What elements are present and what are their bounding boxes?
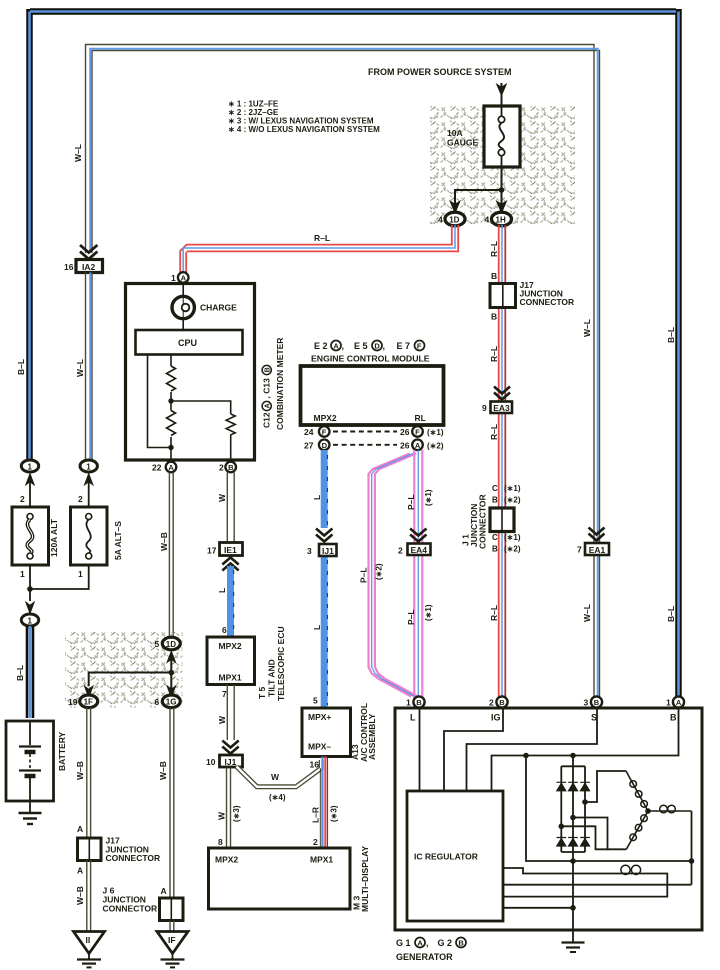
wire J6 to ground IF (170, 921, 174, 932)
svg-text:B: B (458, 939, 464, 948)
generator box (395, 708, 702, 930)
svg-text:CPU: CPU (178, 338, 197, 348)
label E2 A E5 D E7 F (314, 341, 425, 352)
fuse 10A GAUGE (447, 106, 520, 167)
generator junction dots (523, 753, 694, 911)
generator internal wires (420, 708, 692, 930)
svg-text:∗ 4 : W/O LEXUS NAVIGATION SYS: ∗ 4 : W/O LEXUS NAVIGATION SYSTEM (228, 125, 380, 134)
wire meter pin to charge lamp (182, 283, 184, 296)
label C12 A C13 B COMBINATION METER (262, 338, 286, 430)
connector oval 1 (W-L) (80, 460, 97, 472)
svg-text:TELESCOPIC ECU: TELESCOPIC ECU (276, 626, 286, 701)
connector IJ1 (pin 3) (319, 544, 337, 556)
svg-text:B: B (492, 545, 498, 554)
wire B-L oval to battery (27, 626, 33, 718)
svg-text:24: 24 (304, 427, 314, 437)
svg-text:W: W (217, 715, 227, 724)
svg-text:26: 26 (400, 427, 410, 437)
rectifier diodes (557, 782, 590, 846)
svg-text:A: A (417, 939, 423, 948)
svg-text:A: A (333, 342, 339, 351)
wire into 5A ALT-S (88, 482, 90, 507)
wire fuse feed (501, 83, 503, 106)
wire L-R (*3) A/C pin16 to multi-display MPX1 (320, 757, 327, 849)
svg-text:E 5: E 5 (354, 341, 368, 351)
rectifier rails (561, 756, 585, 930)
svg-text:(∗4): (∗4) (269, 793, 286, 802)
svg-text:IJ1: IJ1 (225, 757, 237, 767)
svg-text:W–B: W–B (159, 532, 169, 551)
connector IE1 (pin 17) (220, 543, 243, 556)
arrow chevron into EA1 (589, 528, 605, 541)
svg-text:10A: 10A (447, 128, 463, 138)
stator phase 2 (center) (573, 818, 626, 850)
resistor R1 meter (167, 366, 176, 391)
wire L (blue) ECM pin27 to IJ1 to A/C assembly MPX+ (321, 450, 328, 528)
svg-text:16: 16 (310, 760, 320, 770)
svg-text:IF: IF (168, 935, 176, 945)
stator phase 3 (bottom) (561, 826, 607, 849)
svg-text:R–L: R–L (489, 241, 499, 257)
svg-text:27: 27 (304, 440, 314, 450)
svg-text:(∗2): (∗2) (427, 441, 444, 450)
pin 3 B (S) (591, 696, 602, 707)
svg-text:MPX1: MPX1 (310, 855, 333, 865)
connector EA4 (408, 544, 431, 556)
resistor R2 meter (167, 411, 176, 436)
ground below battery (19, 801, 42, 824)
dashed link pin24 to pin26 (333, 431, 397, 433)
svg-text:(∗2): (∗2) (504, 496, 521, 505)
CPU box (136, 330, 243, 355)
svg-text:2: 2 (78, 494, 83, 504)
connector 1H (492, 212, 512, 226)
svg-text:B: B (499, 698, 505, 707)
svg-text:IG: IG (491, 713, 501, 723)
svg-text:II: II (86, 935, 91, 945)
svg-text:5: 5 (155, 639, 160, 649)
svg-text:R–L: R–L (489, 346, 499, 362)
svg-text:E 2: E 2 (314, 341, 328, 351)
svg-text:CONNECTOR: CONNECTOR (103, 904, 158, 914)
svg-text:, C13: , C13 (262, 378, 272, 399)
svg-text:MPX+: MPX+ (308, 712, 331, 722)
svg-text:B: B (416, 698, 422, 707)
svg-text:R–L: R–L (489, 605, 499, 621)
arrow chevron into EA3 (494, 387, 510, 400)
wire L pin to IC regulator (419, 708, 421, 792)
arrow below 1D (167, 651, 176, 663)
svg-text:C12: C12 (262, 412, 272, 428)
wire L (blue) IE1 to tilt ECU MPX2 (227, 566, 234, 637)
wire B-L outer loop (battery feed to generator B) (30, 9, 679, 700)
svg-text:FROM POWER SOURCE SYSTEM: FROM POWER SOURCE SYSTEM (368, 67, 512, 77)
note *1 *2 *3 *4 (228, 100, 380, 135)
svg-text:22: 22 (152, 463, 162, 473)
engine control module box (301, 366, 444, 425)
svg-text:1F: 1F (84, 698, 93, 707)
A/C control assembly box A13 (302, 708, 351, 757)
wire into 120A ALT (29, 482, 31, 507)
svg-text:1: 1 (666, 698, 671, 708)
pin 1 A (B) (673, 696, 684, 707)
svg-text:B: B (264, 367, 271, 372)
svg-text:W–L: W–L (75, 359, 85, 377)
connector oval 1 (to battery) (21, 614, 38, 626)
svg-text:TILT AND: TILT AND (267, 659, 277, 697)
svg-text:(∗3): (∗3) (232, 805, 241, 822)
pin 2 B of meter (225, 462, 236, 473)
svg-text:L: L (217, 588, 227, 593)
svg-text:2: 2 (219, 463, 224, 473)
arrow from power source (497, 84, 507, 96)
battery (6, 721, 67, 801)
junction node meter 1 (168, 398, 173, 403)
svg-text:120A ALT: 120A ALT (49, 518, 59, 557)
hatch block: instrument panel J/B lower (65, 632, 183, 708)
svg-text:B–L: B–L (16, 359, 26, 375)
svg-text:A: A (415, 441, 421, 450)
svg-text:9: 9 (482, 403, 487, 413)
wire W (*4) IJ1 to A/C assembly pin16 (237, 760, 322, 787)
svg-text:L–R: L–R (311, 807, 321, 823)
hatch block: instrument panel J/B around 10A GAUGE fuse (430, 106, 575, 224)
svg-text:1H: 1H (496, 215, 506, 224)
svg-text:7: 7 (577, 545, 582, 555)
arrow chevron into IJ1 (316, 529, 332, 542)
wire W-B 1F to J17 (87, 708, 91, 839)
svg-text:D: D (374, 342, 380, 351)
wire B pin to B+ rail (492, 708, 679, 792)
wire W tilt ECU to IJ1 (227, 685, 234, 741)
wire W (*3) IJ1 to multi-display MPX2 (227, 768, 231, 849)
svg-text:BATTERY: BATTERY (57, 731, 67, 771)
svg-text:19: 19 (68, 697, 78, 707)
stator coil lower diagonal (626, 811, 648, 849)
svg-text:2: 2 (398, 545, 403, 555)
label T5 TILT AND TELESCOPIC ECU (257, 626, 286, 701)
connector 1G (pin 6) (162, 695, 180, 708)
resistor R3 meter (226, 414, 235, 435)
pin 1 B (L) (413, 696, 424, 707)
stator coil upper diagonal (626, 771, 648, 811)
svg-text:CONNECTOR: CONNECTOR (478, 494, 488, 549)
wire P-L (*2) loop ECM pin26A via left detour to generator L (369, 454, 418, 697)
wire W-L below 1A2 (86, 273, 93, 461)
svg-text:W–B: W–B (75, 886, 85, 905)
wire W-B meter pin22 down to 1D (169, 473, 173, 638)
connector 1D (pin 5) (162, 637, 180, 650)
label A13 A/C CONTROL ASSEMBLY (350, 703, 377, 762)
svg-text:3: 3 (307, 546, 312, 556)
label M3 MULTI-DISPLAY (352, 846, 371, 912)
multi-display box M3 (209, 848, 351, 909)
svg-text:16: 16 (64, 262, 74, 272)
combination meter box (126, 284, 255, 461)
svg-text:(∗3): (∗3) (330, 805, 339, 822)
svg-text:4: 4 (485, 215, 490, 225)
svg-text:W–L: W–L (582, 319, 592, 337)
wire R-L from 1H down to generator IG (through J17, EA3, J1) (499, 225, 506, 698)
svg-text:IJ1: IJ1 (322, 546, 334, 556)
svg-text:W: W (271, 772, 280, 782)
svg-text:MPX1: MPX1 (219, 673, 242, 683)
connector IJ1 (pin 10) (220, 755, 243, 767)
wire fuse output to 1D / 1H (455, 167, 502, 204)
wires 1D to 1F and 1G (89, 659, 172, 694)
meter internal wires (148, 355, 231, 463)
dashed link pin27 to pin26 (333, 444, 397, 446)
svg-text:7: 7 (222, 689, 227, 699)
svg-text:B–L: B–L (666, 606, 676, 622)
connector oval 1 (B-L into engine room R/B) (21, 460, 38, 472)
svg-text:MPX–: MPX– (308, 742, 331, 752)
svg-text:6: 6 (222, 625, 227, 635)
svg-text:CONNECTOR: CONNECTOR (106, 853, 161, 863)
svg-text:(∗1): (∗1) (424, 489, 433, 506)
svg-text:,: , (426, 938, 429, 948)
svg-text:A: A (264, 403, 271, 408)
svg-text:,: , (342, 341, 345, 351)
svg-text:R–L: R–L (489, 424, 499, 440)
junction node meter 2 (168, 445, 173, 450)
svg-text:2: 2 (20, 494, 25, 504)
stator-to-rotor link coil (648, 810, 692, 812)
svg-text:1G: 1G (166, 698, 177, 707)
connector EA1 (585, 543, 609, 555)
svg-text:R–L: R–L (314, 233, 330, 243)
arrow chevron into 1A2 (80, 245, 97, 259)
junction connector J17 (floor) (78, 836, 161, 864)
junction connector J6 (103, 886, 184, 921)
connector 1A2 (pin 16) (76, 260, 103, 273)
svg-text:(∗1): (∗1) (427, 428, 444, 437)
right stator vertical (691, 811, 693, 885)
svg-text:1: 1 (406, 698, 411, 708)
wire IG pin to IC regulator (444, 708, 503, 792)
svg-text:8: 8 (218, 837, 223, 847)
svg-text:B–L: B–L (666, 327, 676, 343)
svg-text:W–B: W–B (75, 761, 85, 780)
svg-text:L: L (312, 495, 322, 500)
wire W-B J17 to ground II (87, 861, 91, 932)
svg-text:EA1: EA1 (589, 545, 606, 555)
svg-text:EA4: EA4 (411, 545, 428, 555)
ground point IF (157, 932, 188, 968)
svg-text:1: 1 (86, 462, 91, 471)
svg-text:ENGINE CONTROL MODULE: ENGINE CONTROL MODULE (311, 354, 430, 364)
svg-text:D: D (322, 441, 328, 450)
wire S pin to IC regulator (467, 708, 598, 792)
svg-text:B: B (492, 496, 498, 505)
svg-text:A: A (77, 866, 83, 876)
svg-text:MPX2: MPX2 (219, 641, 242, 651)
pin 26 F (*1) of ECM (412, 426, 423, 437)
svg-text:10: 10 (206, 757, 216, 767)
svg-text:C: C (492, 533, 498, 542)
svg-text:W–L: W–L (582, 604, 592, 622)
svg-text:(∗2): (∗2) (504, 545, 521, 554)
svg-text:4: 4 (438, 215, 443, 225)
svg-text:P–L: P–L (406, 494, 416, 510)
svg-text:RL: RL (415, 413, 426, 423)
svg-text:W–L: W–L (73, 144, 83, 162)
labels C(*1) B(*2) below J1 (492, 533, 521, 554)
svg-text:E 7: E 7 (397, 341, 411, 351)
svg-text:COMBINATION METER: COMBINATION METER (275, 338, 285, 430)
arrow below oval 1 left (26, 474, 35, 486)
svg-text:G 2: G 2 (438, 938, 453, 948)
connector 1F (pin 19) (80, 695, 98, 708)
svg-text:ASSEMBLY: ASSEMBLY (367, 713, 377, 760)
svg-text:T 5: T 5 (257, 686, 267, 699)
svg-text:G 1: G 1 (396, 938, 411, 948)
svg-text:(∗2): (∗2) (375, 563, 384, 580)
svg-text:IC REGULATOR: IC REGULATOR (414, 852, 478, 862)
arrow into oval 1 lower (26, 602, 35, 614)
svg-text:(∗1): (∗1) (504, 484, 521, 493)
junction connector J1 (461, 494, 515, 549)
svg-text:W–B: W–B (158, 761, 168, 780)
svg-text:F: F (322, 428, 327, 437)
svg-text:2: 2 (489, 698, 494, 708)
svg-text:CONNECTOR: CONNECTOR (520, 297, 575, 307)
connector 1D (cowl side J/B) (445, 212, 465, 226)
svg-text:26: 26 (400, 440, 410, 450)
svg-text:EA3: EA3 (493, 403, 510, 413)
fuse 120A ALT (12, 507, 59, 565)
svg-text:1D: 1D (449, 215, 459, 224)
arrow chevron into EA4 (410, 529, 426, 542)
svg-text:MPX2: MPX2 (314, 413, 337, 423)
svg-text:B: B (670, 713, 677, 723)
svg-text:A: A (161, 886, 167, 896)
charge lamp (172, 296, 194, 319)
wire W meter pin2B to IE1 (227, 473, 234, 543)
svg-text:GENERATOR: GENERATOR (396, 952, 453, 962)
pin 1 A of meter (178, 272, 189, 283)
pin 26 A (*2) of ECM (412, 440, 423, 451)
svg-text:IE1: IE1 (224, 545, 237, 555)
arrow below oval 1 right (84, 474, 93, 486)
wire W-L inner loop (5A ALT-S fuse to generator S) (86, 45, 600, 699)
svg-text:(∗1): (∗1) (424, 604, 433, 621)
arrow into 1H (497, 201, 507, 213)
arrow into 1G (167, 686, 176, 698)
svg-text:6: 6 (155, 697, 160, 707)
svg-text:1: 1 (28, 616, 33, 625)
svg-text:A: A (181, 274, 187, 283)
svg-text:3: 3 (584, 698, 589, 708)
rotor field coil (503, 868, 667, 897)
IC wire to ground rail (503, 907, 573, 909)
svg-text:L: L (312, 625, 322, 630)
labels C(*1) B(*2) above J1 (492, 484, 521, 505)
svg-text:IA2: IA2 (82, 262, 96, 272)
pin 27 D of ECM (319, 440, 330, 451)
wire charge lamp to CPU (182, 319, 184, 330)
wire P-L (*1) ECM pin26A to EA4 to generator L (414, 450, 422, 698)
fuse 5A ALT-S (71, 507, 124, 565)
wire rectifier feed down (526, 756, 692, 862)
svg-text:,: , (383, 341, 386, 351)
svg-text:W: W (217, 811, 227, 820)
svg-text:5A ALT–S: 5A ALT–S (113, 521, 123, 560)
junction below fuses (27, 586, 33, 592)
svg-text:17: 17 (207, 545, 217, 555)
junction connector J17 (engine room) (490, 280, 574, 308)
pin 22 A of meter (166, 462, 177, 473)
svg-text:1: 1 (78, 569, 83, 579)
svg-text:B: B (228, 463, 234, 472)
svg-text:1: 1 (20, 569, 25, 579)
junction below fuse (499, 187, 505, 193)
ground point II (74, 932, 105, 968)
junction 1D branch (169, 670, 175, 676)
svg-text:A: A (77, 824, 83, 834)
svg-text:(∗1): (∗1) (504, 533, 521, 542)
arrow into 1F (84, 686, 93, 698)
label G1 A G2 B GENERATOR (396, 938, 466, 963)
svg-text:C: C (492, 484, 498, 493)
arrow chevron into IJ1 pin10 (222, 741, 238, 754)
svg-text:5: 5 (313, 696, 318, 706)
svg-text:P–L: P–L (359, 567, 369, 583)
svg-text:1: 1 (171, 273, 176, 283)
pin 2 B (IG) (496, 696, 507, 707)
arrow chevron up into IE1 (222, 558, 238, 571)
svg-text:P–L: P–L (406, 609, 416, 625)
svg-text:W: W (217, 493, 227, 502)
IC wire to stator right (503, 884, 692, 886)
connector EA3 (491, 402, 513, 414)
svg-text:2: 2 (313, 837, 318, 847)
svg-text:B: B (491, 312, 497, 322)
generator ground (562, 930, 585, 952)
stator phase 1 (top) (585, 771, 626, 802)
svg-text:GAUGE: GAUGE (447, 138, 479, 148)
wire R-L from 1D to combination meter pin 1A (180, 225, 458, 272)
svg-text:1: 1 (28, 462, 33, 471)
wire W-B 1G down to J6 (170, 708, 174, 899)
svg-text:B–L: B–L (15, 665, 25, 681)
svg-text:A: A (676, 698, 682, 707)
svg-text:MULTI–DISPLAY: MULTI–DISPLAY (360, 846, 370, 912)
svg-text:F: F (417, 342, 422, 351)
svg-text:MPX2: MPX2 (215, 855, 238, 865)
svg-text:F: F (415, 428, 420, 437)
svg-text:B: B (594, 698, 600, 707)
arrow into 1D (450, 201, 460, 213)
svg-text:L: L (410, 713, 416, 723)
IC regulator box (407, 791, 503, 921)
svg-text:B: B (491, 271, 497, 281)
svg-text:A: A (168, 463, 174, 472)
pin 24 F of ECM (319, 426, 330, 437)
svg-text:CHARGE: CHARGE (200, 303, 237, 313)
svg-text:1D: 1D (166, 640, 176, 649)
tilt and telescopic ECU box T5 (207, 637, 255, 685)
